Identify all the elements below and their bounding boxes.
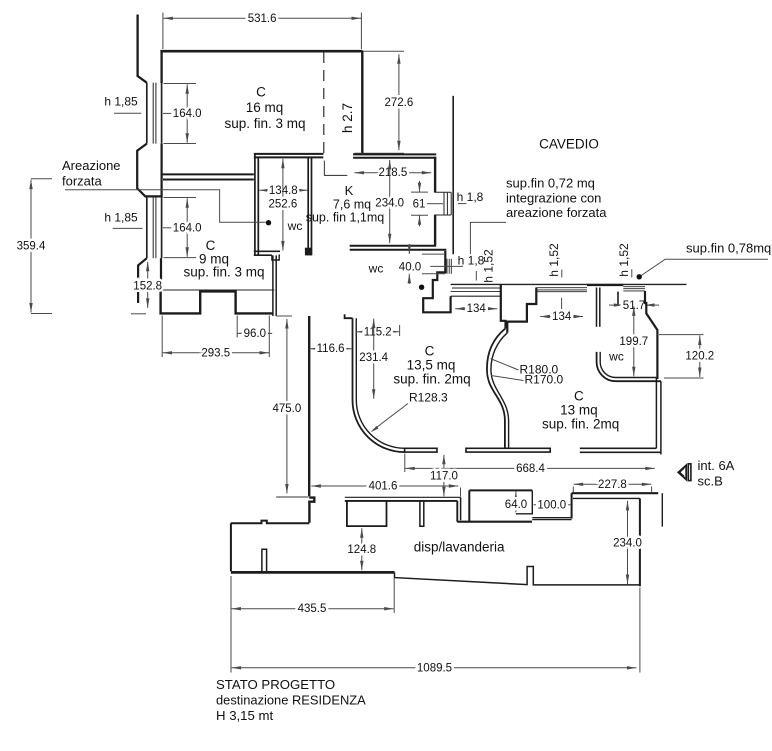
svg-text:231.4: 231.4	[359, 352, 388, 364]
wall: cavedio boundary vertical line	[452, 96, 454, 254]
dimension 531.6 (top width)	[163, 13, 361, 25]
wall: pier between the two left windows	[137, 144, 161, 197]
wall: middle partition bottom bar	[466, 448, 550, 452]
wall: room C13.5 left wall and R128 arc (outer)	[353, 318, 405, 452]
extension for dim 668.4 left	[404, 454, 406, 473]
svg-text:116.6: 116.6	[317, 343, 345, 355]
dimension 401.6	[311, 481, 458, 493]
wall: wc3 quarter-round wall outer	[597, 352, 661, 381]
leader line from Areazione forzata to wc vent dot	[65, 190, 266, 223]
door opening line at wc/K corner	[324, 161, 347, 176]
wall: bottom-left block top edge with bump	[231, 521, 309, 524]
dimension 234.0 (right block)	[613, 501, 642, 584]
svg-text:134: 134	[467, 303, 487, 315]
wall: wc left wall (double)	[255, 154, 258, 255]
wall: wc bottom wall with threshold notch	[254, 251, 280, 260]
wall: curved partition inner line (R170)	[491, 333, 509, 449]
wall: disp step down (inner)	[456, 501, 458, 522]
wall: wc2 right wall and lobby steps	[423, 251, 450, 312]
svg-text:C: C	[425, 344, 435, 359]
wall: right block left step	[571, 493, 573, 518]
tick at corridor top	[276, 315, 292, 317]
label: R170.0 with leader	[491, 373, 564, 387]
svg-text:7,6 mq: 7,6 mq	[333, 198, 371, 212]
svg-text:115.2: 115.2	[364, 326, 392, 338]
wall: room C13 bottom bar	[580, 448, 661, 452]
svg-text:h 1,85: h 1,85	[104, 211, 138, 225]
svg-text:61: 61	[413, 199, 426, 211]
extension line left for 435.5/1089.5	[230, 576, 232, 673]
wall: room C9 left wall below window	[160, 258, 162, 291]
svg-text:401.6: 401.6	[369, 481, 398, 493]
wall: room C13.5 left wall inner line	[356, 318, 404, 448]
svg-text:272.6: 272.6	[385, 97, 414, 109]
label: h 1,52 third (rotated)	[617, 243, 632, 278]
wall: corridor south wall main line	[451, 283, 687, 285]
svg-text:152.8: 152.8	[133, 281, 162, 293]
dimension 252.6 (wc height)	[269, 159, 298, 251]
svg-text:integrazione con: integrazione con	[506, 191, 601, 206]
wall: right block right thin edge	[661, 493, 663, 526]
dimension 64.0	[505, 492, 527, 513]
svg-text:134: 134	[552, 311, 572, 323]
svg-text:disp/lavanderia: disp/lavanderia	[414, 540, 505, 555]
window: upper-left window (4 glazing lines)	[147, 83, 162, 144]
wall: right wall of room C 16	[361, 51, 363, 155]
wall: room C13.5 bottom bar	[405, 448, 437, 452]
svg-text:234.0: 234.0	[375, 197, 404, 209]
svg-text:475.0: 475.0	[273, 403, 302, 415]
svg-text:13,5 mq: 13,5 mq	[407, 358, 456, 373]
wall: right block top edge	[572, 492, 659, 494]
wall: disp slot	[420, 500, 424, 526]
dimension 117.0 vertical	[430, 455, 458, 497]
svg-text:1089.5: 1089.5	[417, 662, 452, 674]
label: h 1,52 first (rotated)	[476, 249, 495, 283]
dimension 51.7 (window 3)	[609, 300, 659, 312]
svg-text:sup. fin. 3 mq: sup. fin. 3 mq	[224, 116, 305, 131]
wall: wc right wall bottom solid stub	[305, 248, 312, 256]
wall: top exterior wall of room C 16	[160, 50, 362, 53]
svg-text:100.0: 100.0	[537, 500, 566, 512]
label: R128.3 with leader arrow	[371, 391, 448, 433]
wall: disp north crenellated wall (double top line)	[345, 497, 461, 501]
svg-text:sup. fin. 2mq: sup. fin. 2mq	[393, 372, 470, 387]
svg-text:wc: wc	[368, 262, 384, 276]
wall: jamb left of window 3	[617, 292, 619, 305]
svg-text:K: K	[345, 183, 354, 198]
label: K room	[306, 183, 385, 225]
wall: pier between windows right side steps	[507, 288, 536, 333]
svg-text:h 1,52: h 1,52	[547, 243, 561, 277]
vent dot in wc2	[419, 285, 424, 290]
svg-text:h 1,8: h 1,8	[457, 190, 484, 204]
wall: room C13.5 left wall top jog	[345, 314, 353, 318]
dimension 134 (window 2)	[540, 311, 583, 323]
wall: corridor left wall (double)	[273, 255, 276, 316]
dimension 272.6 (right of room C16)	[385, 54, 414, 150]
dimension 227.8	[574, 479, 652, 491]
wall: inner face top-left corner	[160, 50, 162, 83]
ticks for dim 164.0 lower	[163, 198, 196, 258]
svg-text:64.0: 64.0	[505, 499, 527, 511]
extension lines for dim 115.2	[356, 321, 400, 336]
svg-text:sup. fin. 2mq: sup. fin. 2mq	[542, 417, 619, 432]
svg-text:13 mq: 13 mq	[560, 403, 598, 418]
dimension 1089.5	[232, 662, 637, 674]
label: h 1,52 second (rotated)	[547, 243, 562, 277]
dimension 100.0	[534, 500, 571, 512]
svg-text:R170.0: R170.0	[525, 373, 564, 387]
label: room C 16 mq	[224, 85, 305, 132]
wall: wc2 top wall	[350, 249, 447, 251]
svg-text:252.6: 252.6	[269, 199, 298, 211]
svg-text:destinazione RESIDENZA: destinazione RESIDENZA	[216, 693, 366, 708]
wall: disp inner bottom thick	[457, 521, 532, 523]
label: h 1,8 upper window note	[457, 190, 484, 204]
svg-text:sup. fin 1,1mq: sup. fin 1,1mq	[306, 211, 385, 225]
dimension 152.8	[133, 262, 162, 308]
svg-text:STATO PROGETTO: STATO PROGETTO	[216, 677, 335, 692]
svg-text:120.2: 120.2	[685, 351, 714, 363]
dimension 668.4	[405, 463, 655, 475]
svg-text:h 1,52: h 1,52	[482, 249, 496, 283]
wall: wc3 right wall upper segment	[656, 335, 658, 379]
svg-text:sup. fin. 3 mq: sup. fin. 3 mq	[183, 265, 264, 280]
svg-text:R128.3: R128.3	[409, 391, 448, 405]
svg-text:668.4: 668.4	[516, 463, 545, 475]
dimension 96.0	[237, 328, 272, 340]
svg-text:359.4: 359.4	[17, 241, 46, 253]
extension line right for 1089.5	[639, 588, 641, 673]
wall: wc3 quarter-round wall inner	[600, 352, 656, 378]
extension lines for dim 227.8	[573, 487, 651, 493]
ticks for dim 359.4	[31, 179, 52, 314]
svg-text:227.8: 227.8	[598, 479, 627, 491]
dimension 120.2	[685, 336, 714, 378]
dimension 199.7 (wc3)	[619, 306, 648, 376]
dimension 115.2	[357, 326, 399, 338]
wall: K right wall upper part	[434, 157, 436, 193]
svg-text:Areazione: Areazione	[62, 158, 121, 173]
label: int. 6A / sc.B	[698, 458, 735, 489]
svg-text:40.0: 40.0	[399, 261, 421, 273]
window: wc2 vent glazing	[447, 259, 451, 274]
extension lines for dim 120.2	[659, 335, 704, 378]
svg-text:218.5: 218.5	[378, 167, 407, 179]
leader for dim 134 window 2	[561, 298, 563, 309]
svg-text:164.0: 164.0	[173, 223, 202, 235]
extension for dim 401.6 right	[460, 488, 462, 497]
svg-text:C: C	[256, 85, 266, 100]
label: h 1,85 upper	[104, 95, 141, 114]
svg-text:h 1,85: h 1,85	[104, 95, 138, 109]
wall: wc top wall (double thick)	[254, 154, 324, 158]
extension line right for 435.5	[393, 578, 395, 613]
svg-text:h 2.7: h 2.7	[340, 103, 355, 133]
svg-text:96.0: 96.0	[244, 328, 266, 340]
wall: wc3 right jamb with diagonal	[645, 291, 657, 335]
dimension 134 (window 1)	[455, 303, 497, 315]
wall: right block right edge	[639, 498, 641, 586]
tick at wall bottom left (359.4 reference)	[131, 313, 146, 315]
dimension 61 (vent opening)	[411, 181, 443, 226]
window: lower-left window (4 glazing lines)	[147, 197, 162, 258]
label: Areazione forzata	[62, 158, 121, 189]
label: R180.0 with leader	[491, 359, 559, 377]
wall: 64 box left edge	[468, 490, 470, 521]
label: h 1,85 lower	[104, 211, 142, 229]
dimension 164.0 (upper window)	[173, 84, 202, 142]
svg-text:124.8: 124.8	[347, 544, 376, 556]
label: room C 9 mq	[183, 238, 264, 280]
svg-text:h 1,52: h 1,52	[617, 243, 631, 277]
dimension 134.8 (wc width)	[259, 185, 307, 197]
label: room C 13,5 mq	[393, 344, 470, 387]
leader from sup.fin 0,78mq to vent dot	[641, 259, 769, 276]
svg-text:H 3,15 mt: H 3,15 mt	[216, 708, 274, 723]
wall: right block inner top line	[573, 497, 640, 499]
extension lines for dim 531.6	[163, 13, 362, 50]
svg-text:CAVEDIO: CAVEDIO	[539, 137, 599, 152]
dimension 40.0 (vent)	[399, 244, 421, 284]
wall: disp step down (outer)	[460, 497, 462, 520]
dimension 359.4 (left overall)	[17, 180, 46, 313]
wall: thick wall segment between windows 2 and 3	[587, 284, 623, 286]
wall: K right wall lower part	[434, 215, 436, 245]
vent dot window 3	[637, 274, 642, 279]
wall: K bottom wall	[350, 245, 437, 247]
dimension 124.8	[347, 528, 376, 570]
wall: room C9 crenellated bottom wall	[161, 290, 273, 313]
dimension 234.0 (K height)	[375, 160, 404, 243]
wall: thin double wall right of 64 box	[532, 518, 571, 520]
window: corridor window 2 (134)	[536, 288, 587, 292]
svg-text:117.0: 117.0	[430, 471, 458, 483]
wall: curved partition outer line (R180)	[487, 328, 506, 448]
wall: wc right wall (double)	[308, 158, 311, 256]
wall: pier between windows left side	[501, 284, 506, 328]
svg-text:C: C	[574, 389, 584, 404]
svg-text:sc.B: sc.B	[698, 474, 723, 489]
svg-text:sup.fin 0,72 mq: sup.fin 0,72 mq	[506, 176, 595, 191]
window: K right vent (61) sill lines	[434, 192, 451, 215]
wall: wc3 left wall upper (double)	[597, 288, 600, 327]
svg-text:234.0: 234.0	[613, 538, 642, 550]
window: corridor window 1 (134)	[451, 288, 501, 296]
wall: horizontal double wall left of wc (y~174-179)	[162, 174, 254, 179]
svg-text:164.0: 164.0	[173, 108, 202, 120]
extension lines for dim 40.0	[422, 254, 445, 274]
svg-text:199.7: 199.7	[619, 336, 648, 348]
dimension 164.0 (lower window)	[173, 198, 202, 256]
wall: stub inside bottom-left block	[262, 549, 267, 571]
window: corridor window 3 (51.7)	[623, 287, 645, 291]
wall: unit right wall (double)	[656, 378, 661, 455]
svg-text:16 mq: 16 mq	[246, 100, 284, 115]
dimension 231.4	[359, 319, 388, 399]
wall: bottom-left block left edge	[230, 523, 232, 571]
extension lines for dim 293.5	[162, 316, 269, 358]
wall: 64 box top	[469, 489, 532, 491]
leader from integrazione note to vent	[470, 222, 506, 254]
svg-text:293.5: 293.5	[201, 347, 230, 359]
dimension 218.5 (K width)	[354, 167, 431, 179]
wall: corridor right wall with bottom notch	[309, 316, 314, 523]
wall: bottom diagonal edge with notch	[395, 567, 640, 585]
extension lines for dim 272.6	[354, 51, 404, 153]
wall: room C9 bottom wall thin top line	[150, 289, 274, 291]
dimension 116.6	[310, 343, 352, 355]
svg-text:forzata: forzata	[62, 174, 103, 189]
svg-text:wc: wc	[287, 219, 303, 233]
wall: K top wall (double thick)	[353, 154, 436, 157]
svg-text:wc: wc	[608, 350, 624, 364]
wall: threshold line at corridor exit	[276, 496, 308, 498]
extension for dim 96.0	[236, 316, 238, 338]
label: h 1,8 lower vent note	[430, 254, 484, 268]
svg-text:sup.fin 0,78mq: sup.fin 0,78mq	[686, 241, 771, 256]
door symbol int.6A	[678, 464, 691, 481]
dimension 475.0 (corridor length)	[273, 319, 302, 494]
wall: disp U-notch	[347, 500, 387, 526]
svg-text:areazione forzata: areazione forzata	[506, 205, 607, 220]
label: room C 13 mq	[542, 389, 619, 432]
label: STATO PROGETTO title	[216, 677, 366, 723]
label: sup.fin 0,72 mq note	[506, 176, 607, 221]
dashed opening line in room C 16	[323, 52, 325, 154]
vent dot in wc	[266, 220, 271, 225]
svg-text:int. 6A: int. 6A	[698, 458, 735, 473]
svg-text:531.6: 531.6	[248, 13, 277, 25]
wall: 64 box right edge	[516, 490, 532, 513]
svg-text:435.5: 435.5	[298, 603, 327, 615]
wall: bottom-left block bottom edge	[231, 571, 395, 574]
ticks for dim 164.0 upper	[163, 84, 196, 144]
dimension 293.5	[163, 347, 270, 359]
wall: top-left exterior stub and jamb above upper window	[138, 15, 147, 83]
dimension 435.5	[231, 603, 393, 615]
wall: jamb below lower window going to room C9 corner	[138, 258, 147, 303]
